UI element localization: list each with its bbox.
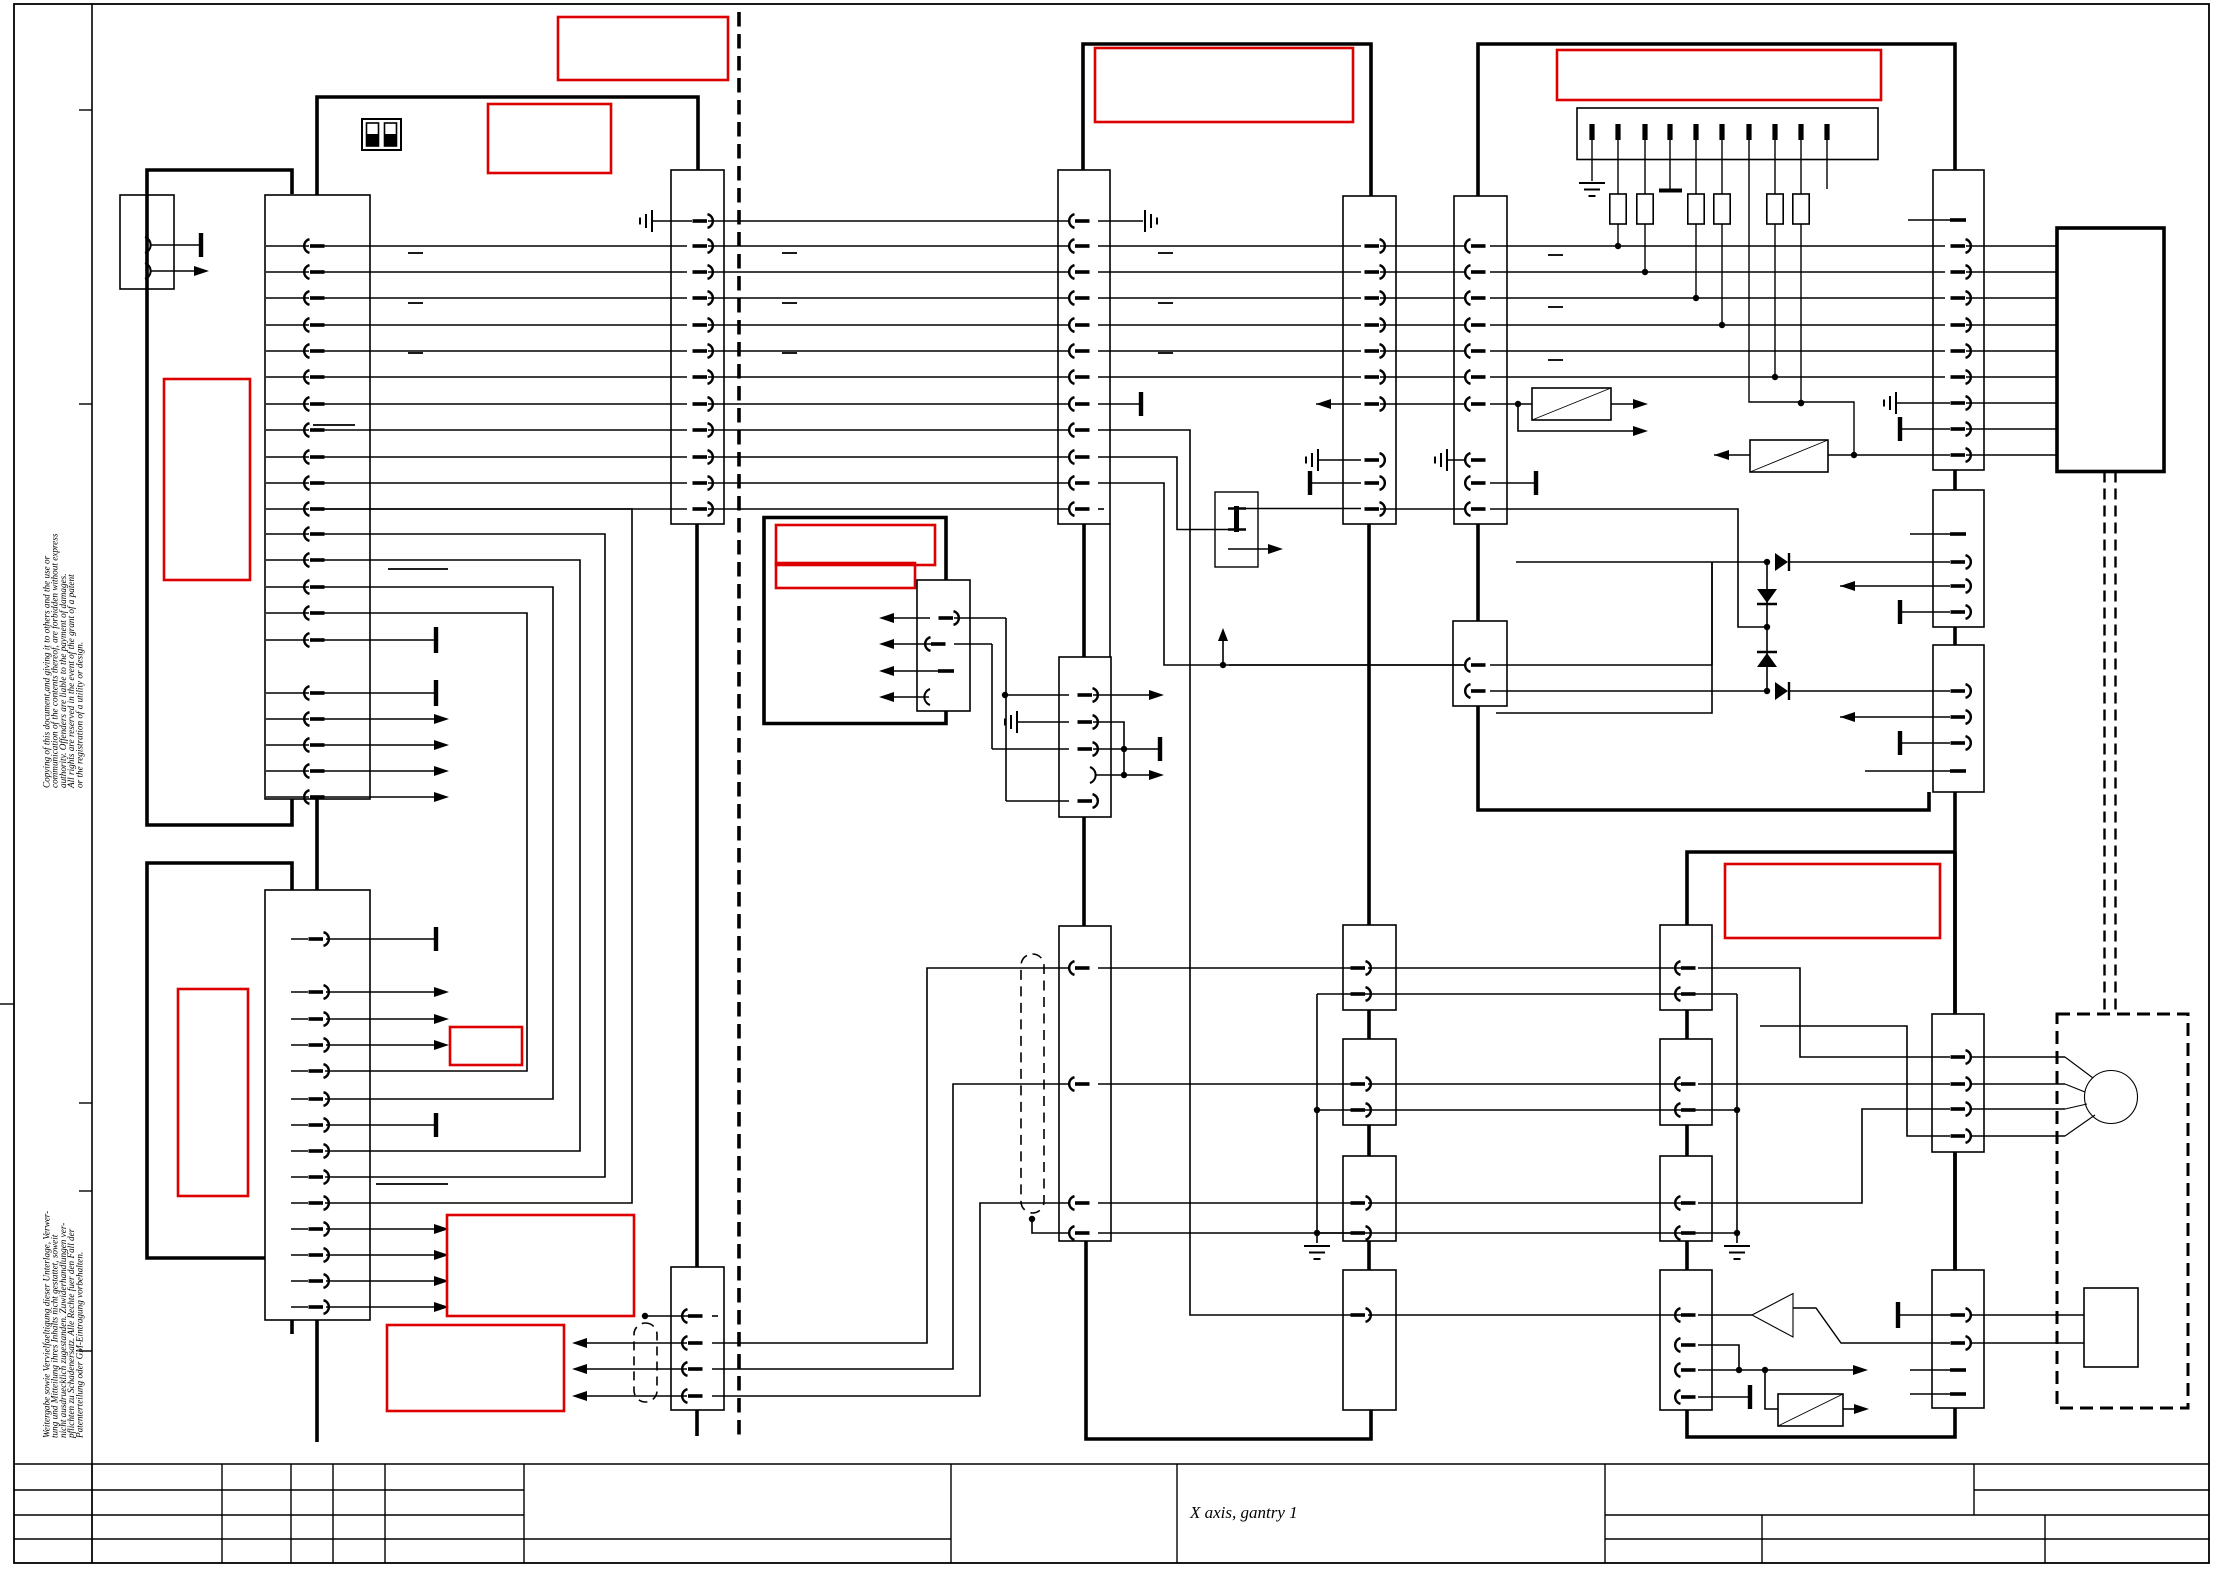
redacted label box (cabinet B) bbox=[178, 989, 248, 1196]
wire K1 output arrow bbox=[1228, 548, 1272, 550]
pin X60:8 bbox=[1951, 396, 1971, 410]
pin X31:3 bbox=[1069, 1196, 1089, 1210]
junction R1 node bbox=[1615, 243, 1621, 249]
connector X2 (lower PLC connector) bbox=[265, 890, 370, 1320]
pin X10:1 bbox=[145, 237, 151, 253]
wire U-loop 2 bbox=[320, 534, 605, 1177]
pin X21:8 bbox=[1069, 397, 1089, 411]
wire row 1110 bbox=[1317, 1109, 1737, 1111]
wire X24:2 arrow left bbox=[884, 643, 936, 645]
wire row 1233 bbox=[1317, 1232, 1737, 1234]
junction R3 node bbox=[1693, 295, 1699, 301]
pin X1:11 bbox=[304, 502, 324, 516]
pin X41:2 bbox=[1465, 684, 1485, 698]
pin X73:3 bbox=[1675, 1363, 1695, 1377]
resistor R1 bbox=[1617, 140, 1619, 194]
junction R6 node bbox=[1798, 400, 1804, 406]
svg-text:Patenterteilung oder GM-Eintra: Patenterteilung oder GM-Eintragung vorbe… bbox=[74, 1252, 84, 1439]
wire X41:1 riser bbox=[1496, 562, 1712, 713]
pin X70:1 bbox=[1675, 961, 1695, 975]
wire link x1110 bbox=[1109, 524, 1111, 657]
pin X21:2 bbox=[1069, 239, 1089, 253]
pin X2:1 bbox=[309, 932, 329, 946]
pin X40:3 bbox=[1465, 291, 1485, 305]
wire X41:1 left bbox=[1229, 664, 1466, 666]
diode D4 bbox=[1775, 682, 1788, 700]
junction node C bbox=[1764, 688, 1770, 694]
pin X40:8 bbox=[1465, 453, 1485, 467]
pin X34:1 bbox=[1351, 1196, 1371, 1210]
wire X22:1 to cable screen bbox=[642, 1313, 648, 1319]
wire X22:4 to X31 bbox=[712, 1203, 1069, 1396]
wire I1 output arrow bbox=[1611, 403, 1638, 405]
pin X60:7 bbox=[1951, 370, 1971, 384]
right riser x1737 bbox=[1736, 994, 1738, 1243]
pin X30:2 bbox=[1365, 265, 1385, 279]
pin X21:1 bbox=[1069, 214, 1089, 228]
ground at X60:8 bbox=[1896, 402, 1950, 404]
thick stub below X22 bbox=[695, 1410, 699, 1436]
pin X35:1 bbox=[1351, 1308, 1371, 1322]
pin X81:1 bbox=[1951, 1308, 1971, 1322]
resistor R2 bbox=[1644, 140, 1646, 194]
pin X61:1 bbox=[1950, 532, 1966, 536]
pin X71:1 bbox=[1675, 1077, 1695, 1091]
pin X1:4 bbox=[304, 318, 324, 332]
wire bus X20 to X21 (12 wires across cabinet boundary) bbox=[708, 220, 1068, 222]
pin X23:3 bbox=[1078, 742, 1098, 756]
pin X2:5 bbox=[309, 1064, 329, 1078]
wire X22:2 arrow to interface bbox=[576, 1342, 687, 1344]
isolator I3 bbox=[1778, 1394, 1843, 1426]
pin X50:6 bbox=[1719, 124, 1724, 140]
pin X2:4 bbox=[309, 1038, 329, 1052]
junction arrow up node bbox=[1220, 662, 1226, 668]
feeder from X24 to X23 (vertical x1006) bbox=[1005, 618, 1007, 801]
pin X62:4 bbox=[1950, 769, 1966, 773]
thick rail right side bbox=[1953, 792, 1957, 1014]
thick column X32 chain bbox=[1367, 524, 1371, 925]
pin X21:3 bbox=[1069, 265, 1089, 279]
pin X70:2 bbox=[1675, 987, 1695, 1001]
wire row 994 with risers bbox=[1317, 993, 1737, 995]
resistor R4 bbox=[1721, 140, 1723, 194]
connector X61 bbox=[1933, 490, 1984, 627]
pin X30:10 bbox=[1365, 502, 1385, 516]
wire X23:5 bbox=[1006, 800, 1069, 802]
pin X40:4 bbox=[1465, 318, 1485, 332]
junction node A bbox=[1764, 559, 1770, 565]
pin X60:1 bbox=[1950, 218, 1966, 222]
pin X20:12 bbox=[693, 502, 713, 516]
wire X2:1 terminator bbox=[326, 938, 434, 940]
pin X21:5 bbox=[1069, 318, 1089, 332]
cabinet boundary dashed line bbox=[737, 12, 741, 1436]
pin X2:10 bbox=[309, 1196, 329, 1210]
cabinet box B4 outline bbox=[1083, 44, 1371, 196]
drive unit box bbox=[2057, 228, 2164, 472]
wire X24:1 arrow left bbox=[884, 617, 930, 619]
pin X60:6 bbox=[1951, 344, 1971, 358]
wire X23:2 link right bbox=[1093, 722, 1124, 749]
pin X41:1 bbox=[1465, 658, 1485, 672]
pin X40:5 bbox=[1465, 344, 1485, 358]
pin X2:6 bbox=[309, 1092, 329, 1106]
wire X2:11 arrow bbox=[326, 1228, 434, 1230]
wire X24:2 right bbox=[954, 643, 992, 645]
junction R4 node bbox=[1719, 322, 1725, 328]
thick link X21 to X23 bbox=[1082, 524, 1086, 657]
pin X80:4 bbox=[1951, 1129, 1971, 1143]
brake/sensor box bbox=[2084, 1288, 2138, 1367]
wire U-loop 4 bbox=[320, 587, 553, 1099]
wire U-loop 3 bbox=[320, 560, 580, 1151]
redacted small label box bbox=[450, 1027, 522, 1065]
wire X21:11 to X40 bbox=[1098, 483, 1465, 665]
ground at X23:2 bbox=[1005, 711, 1017, 733]
pin X60:3 bbox=[1951, 265, 1971, 279]
isolator I1 bbox=[1532, 388, 1611, 420]
pin X30:1 bbox=[1365, 239, 1385, 253]
connector X71 bbox=[1660, 1039, 1712, 1125]
svg-text:or the registration of a utili: or the registration of a utility or desi… bbox=[74, 642, 84, 788]
pin X62:3 bbox=[1951, 736, 1971, 750]
wire X30:7 arrow out bbox=[1316, 403, 1361, 405]
wire X50:7 long route bbox=[1749, 140, 1854, 455]
pin X1:18 bbox=[304, 712, 324, 726]
connector X62 bbox=[1933, 645, 1984, 792]
redacted label box (cabinet A) bbox=[164, 379, 250, 580]
pin X72:2 bbox=[1675, 1226, 1695, 1240]
redacted label box (B3 line 2) bbox=[776, 563, 915, 588]
svg-text:X axis, gantry 1: X axis, gantry 1 bbox=[1189, 1503, 1298, 1522]
pin X21:4 bbox=[1069, 291, 1089, 305]
pin X21:11 bbox=[1069, 476, 1089, 490]
redacted label box (B3 line 1) bbox=[776, 525, 935, 565]
connector X80 bbox=[1932, 1014, 1984, 1152]
redacted label box (top left) bbox=[558, 17, 728, 80]
motor cable dashed pair bbox=[2103, 472, 2105, 1015]
pin X23:1 bbox=[1078, 688, 1098, 702]
frame inner vertical line bbox=[91, 4, 93, 1563]
pin X23:2 bbox=[1078, 715, 1098, 729]
wire X73:2 junction bbox=[1698, 1345, 1739, 1370]
pin X2:9 bbox=[309, 1170, 329, 1184]
pin X33:2 bbox=[1351, 1103, 1371, 1117]
pin X80:3 bbox=[1951, 1102, 1971, 1116]
wire X2:2 arrow bbox=[326, 991, 434, 993]
pin X20:7 bbox=[693, 370, 713, 384]
pin X21:12 bbox=[1069, 502, 1089, 516]
wire X22:4 arrow to interface bbox=[576, 1395, 687, 1397]
cabinet box B5 outline bbox=[1478, 44, 1955, 810]
wire branch to isolator I3 bbox=[1765, 1370, 1778, 1409]
thick link X20 to X22 bbox=[695, 524, 699, 1267]
connector X20 bbox=[671, 170, 724, 524]
pin X40:1 bbox=[1465, 239, 1485, 253]
terminator X62:3 bbox=[1898, 731, 1902, 755]
pin X31:4 bbox=[1069, 1226, 1089, 1240]
wire X70:1 to X80 bbox=[1698, 968, 1950, 1057]
pin X22:4 bbox=[682, 1389, 702, 1403]
pin X30:9 bbox=[1365, 476, 1385, 490]
wire row 1203 gap bbox=[1368, 1202, 1682, 1204]
pin X2:8 bbox=[309, 1144, 329, 1158]
cabinet box B2 outline bbox=[292, 97, 698, 1442]
wire X80:3 to motor bbox=[1970, 1108, 2065, 1110]
connector X72 bbox=[1660, 1156, 1712, 1241]
pin X2:11 bbox=[309, 1222, 329, 1236]
wire X1:19 arrow bbox=[320, 744, 434, 746]
pin X2:3 bbox=[309, 1012, 329, 1026]
cabinet box A outline bbox=[147, 170, 292, 825]
wire I2 arrow out bbox=[1714, 454, 1750, 456]
pin X1:17 bbox=[304, 686, 324, 700]
wire I3 arrow out bbox=[1843, 1408, 1856, 1410]
pin X21:7 bbox=[1069, 370, 1089, 384]
pin X1:7 bbox=[304, 397, 324, 411]
wire X1:20 arrow bbox=[320, 770, 434, 772]
connector X73 bbox=[1660, 1270, 1712, 1410]
copyright notice german (vertical) bbox=[42, 1211, 85, 1439]
pin X40:9 bbox=[1465, 476, 1485, 490]
pin X40:10 bbox=[1465, 502, 1485, 516]
pin X20:5 bbox=[693, 318, 713, 332]
wire X50:10 stub bbox=[1826, 140, 1828, 189]
pin X30:8 bbox=[1365, 453, 1385, 467]
connector X24 bbox=[917, 580, 970, 711]
wire X40:10 to isolator I1 bbox=[1490, 403, 1532, 405]
pin X23:4 bbox=[1090, 767, 1096, 783]
pin X24:1 bbox=[939, 611, 959, 625]
wire X24:4 arrow left bbox=[884, 696, 929, 698]
wire X1:18 arrow bbox=[320, 718, 434, 720]
wire label underline 3 bbox=[376, 1183, 448, 1185]
wire X24:1 right bbox=[954, 617, 1006, 619]
wire X1:17 with terminator bbox=[320, 692, 434, 694]
pin X30:5 bbox=[1365, 344, 1385, 358]
feeder from X24:2 (vertical x992) bbox=[991, 644, 993, 749]
copyright notice english (vertical) bbox=[42, 533, 85, 789]
pin X22:3 bbox=[682, 1362, 702, 1376]
pin X30:6 bbox=[1365, 370, 1385, 384]
wire label underline 2 bbox=[388, 568, 448, 570]
redacted label box (B4) bbox=[1095, 48, 1353, 122]
wire X40b to diode row 560 bbox=[1516, 561, 1767, 563]
wire isolator I2 to X60:10 bbox=[1854, 454, 1950, 456]
wire X61:3 arrow bbox=[1840, 585, 1950, 587]
pin X31:1 bbox=[1069, 961, 1089, 975]
wire X21:12 stub bbox=[1098, 508, 1104, 510]
pin X20:6 bbox=[693, 344, 713, 358]
connector X21 bbox=[1058, 170, 1110, 524]
pin X50:7 bbox=[1746, 124, 1751, 140]
title block outline bbox=[14, 1463, 2209, 1465]
terminator X30:9 bbox=[1308, 471, 1312, 495]
wire X71:1 to X80 bbox=[1698, 1083, 1950, 1085]
wire row 968 gap bbox=[1368, 967, 1682, 969]
pin X1:2 bbox=[304, 265, 324, 279]
pin X33:1 bbox=[1351, 1077, 1371, 1091]
wire row 691 from X41 bbox=[1490, 690, 1767, 692]
resistor R5 bbox=[1774, 140, 1776, 194]
pin X80:2 bbox=[1951, 1077, 1971, 1091]
ground at X40:8 bbox=[1447, 459, 1466, 461]
terminator tick X10:1 bbox=[199, 233, 203, 257]
wire X2:3 arrow bbox=[326, 1018, 434, 1020]
wire X21:10 to thermal contact bbox=[1098, 457, 1228, 530]
screen drain to X31:4 bbox=[1029, 1216, 1035, 1222]
connector X60 bbox=[1933, 170, 1984, 470]
wire X22:3 arrow to interface bbox=[576, 1368, 687, 1370]
connector X10 bbox=[120, 195, 174, 289]
wire bus X60 to drive unit bbox=[1966, 245, 2057, 247]
connector X33 bbox=[1343, 1039, 1396, 1125]
cable screen capsule (middle) bbox=[1021, 954, 1044, 1213]
resistor R3 bbox=[1695, 140, 1697, 194]
diode D2 vertical bbox=[1766, 562, 1768, 627]
terminator X81:1 bbox=[1896, 1302, 1900, 1328]
isolator I2 bbox=[1750, 440, 1828, 472]
cabinet box B outline bbox=[147, 863, 292, 1258]
connector X32 bbox=[1343, 925, 1396, 1010]
wire X2:4 arrow bbox=[326, 1044, 434, 1046]
wire X2:7 terminator bbox=[326, 1124, 434, 1126]
ground at X21:1 bbox=[1098, 220, 1143, 222]
wire X80:2 to motor bbox=[1970, 1083, 2065, 1085]
wire row 1084 gap bbox=[1368, 1083, 1682, 1085]
arrow X10:2 bbox=[194, 266, 209, 276]
pin X21:10 bbox=[1069, 450, 1089, 464]
pin X50:10 bbox=[1824, 124, 1829, 140]
wire U-loop 5 bbox=[320, 613, 527, 1071]
motor M1 circle bbox=[2085, 1071, 2138, 1124]
amplifier output to X81 bbox=[1793, 1308, 1950, 1343]
pin X21:9 bbox=[1069, 423, 1089, 437]
junction R2 node bbox=[1642, 269, 1648, 275]
vertical link X23:3 to X23:4 bbox=[1123, 749, 1125, 775]
ground at X20:1 bbox=[640, 210, 652, 232]
pin X61:4 bbox=[1951, 605, 1971, 619]
connector X70 bbox=[1660, 925, 1712, 1010]
earth ground right riser bbox=[1724, 1246, 1750, 1259]
cabinet box B6 outline bbox=[1687, 852, 1955, 1437]
pin X1:6 bbox=[304, 370, 324, 384]
pin X20:3 bbox=[693, 265, 713, 279]
pin X2:14 bbox=[309, 1300, 329, 1314]
terminator X61:4 bbox=[1898, 600, 1902, 624]
redacted label box (B5) bbox=[1557, 50, 1881, 100]
pin X1:16 bbox=[304, 633, 324, 647]
pin X81:3 bbox=[1950, 1368, 1966, 1372]
junction R5 node bbox=[1772, 374, 1778, 380]
pin X62:1 bbox=[1951, 684, 1971, 698]
pin X1:20 bbox=[304, 764, 324, 778]
pin X2:2 bbox=[309, 985, 329, 999]
pin X50:9 bbox=[1798, 124, 1803, 140]
wire X40:10b to diode network bbox=[1490, 509, 1767, 627]
wire X22:2 to X31 bbox=[712, 968, 1069, 1343]
pin X20:10 bbox=[693, 450, 713, 464]
pin X60:2 bbox=[1951, 239, 1971, 253]
wire X2:12 arrow bbox=[326, 1254, 434, 1256]
wire X31 pins to X32 column bbox=[1098, 967, 1361, 969]
wire X23:1 bbox=[1002, 692, 1008, 698]
pin X62:2 bbox=[1951, 710, 1971, 724]
pin X1:12 bbox=[304, 527, 324, 541]
connector X1 (upper PLC connector) bbox=[265, 195, 370, 799]
pin X50:8 bbox=[1772, 124, 1777, 140]
thick link X31 bottom bbox=[1086, 1241, 1371, 1439]
pin X60:9 bbox=[1951, 422, 1971, 436]
connector X22 bbox=[671, 1267, 724, 1410]
pin X50:5 bbox=[1693, 124, 1698, 140]
redacted label box (B2) bbox=[488, 104, 611, 173]
wire K1 to X30:10 bbox=[1246, 508, 1361, 510]
wire X41:1 right riser bbox=[1490, 664, 1712, 666]
ground at X30:8 bbox=[1306, 449, 1318, 471]
pin X50:4 bbox=[1667, 124, 1672, 140]
wire X81:2 to sensor bbox=[1970, 1342, 2084, 1344]
earth ground left riser bbox=[1304, 1246, 1330, 1259]
amplifier triangle bbox=[1752, 1294, 1793, 1338]
ground under X50:1 bbox=[1591, 140, 1593, 181]
wire X72:1 to X80 bbox=[1698, 1109, 1950, 1203]
pin X10:2 bbox=[145, 263, 151, 279]
thick link X23 to X31 bbox=[1082, 817, 1086, 926]
wire X1:16 with terminator bbox=[320, 639, 434, 641]
pin X73:2 bbox=[1675, 1338, 1695, 1352]
wire bus X1 to X20 (11 signal wires) bbox=[320, 245, 687, 247]
wire number labels bbox=[408, 252, 423, 254]
pin X30:7 bbox=[1365, 397, 1385, 411]
pin X20:8 bbox=[693, 397, 713, 411]
wire X73:4 terminator bbox=[1698, 1396, 1748, 1398]
pin X60:4 bbox=[1951, 291, 1971, 305]
pin X24:4 bbox=[924, 689, 930, 705]
diode D3 vertical bbox=[1766, 627, 1768, 691]
wire X2:14 arrow bbox=[326, 1306, 434, 1308]
connector X81 bbox=[1932, 1270, 1984, 1408]
pin X1:19 bbox=[304, 738, 324, 752]
pin X71:2 bbox=[1675, 1103, 1695, 1117]
pin X73:4 bbox=[1675, 1390, 1695, 1404]
pin X1:15 bbox=[304, 606, 324, 620]
pin X1:21 bbox=[304, 790, 324, 804]
pin X40:7 bbox=[1465, 397, 1485, 411]
redacted label box (B6) bbox=[1725, 864, 1940, 938]
pin X60:5 bbox=[1951, 318, 1971, 332]
pin X1:13 bbox=[304, 553, 324, 567]
wire row 1315 gap bbox=[1368, 1314, 1682, 1316]
pin X73:1 bbox=[1675, 1308, 1695, 1322]
terminal bus bar X50 bbox=[1577, 108, 1878, 160]
wire X81:1 to sensor bbox=[1970, 1314, 2084, 1316]
wire X24:3 arrow left bbox=[884, 670, 938, 672]
left riser x1317 bbox=[1316, 994, 1318, 1243]
wire U-loop 1 (X1:11 to X2:10) bbox=[320, 509, 632, 1203]
connector X35 bbox=[1343, 1270, 1396, 1410]
connector X30 bbox=[1343, 196, 1396, 524]
connector X34 bbox=[1343, 1156, 1396, 1241]
wire X73:1 to amplifier bbox=[1698, 1314, 1752, 1316]
pin X61:2 bbox=[1951, 555, 1971, 569]
pin X1:5 bbox=[304, 344, 324, 358]
frame fold tick outside bbox=[0, 1003, 14, 1005]
pin X20:2 bbox=[693, 239, 713, 253]
wire X2:13 arrow bbox=[326, 1280, 434, 1282]
pin X32:1 bbox=[1351, 961, 1371, 975]
